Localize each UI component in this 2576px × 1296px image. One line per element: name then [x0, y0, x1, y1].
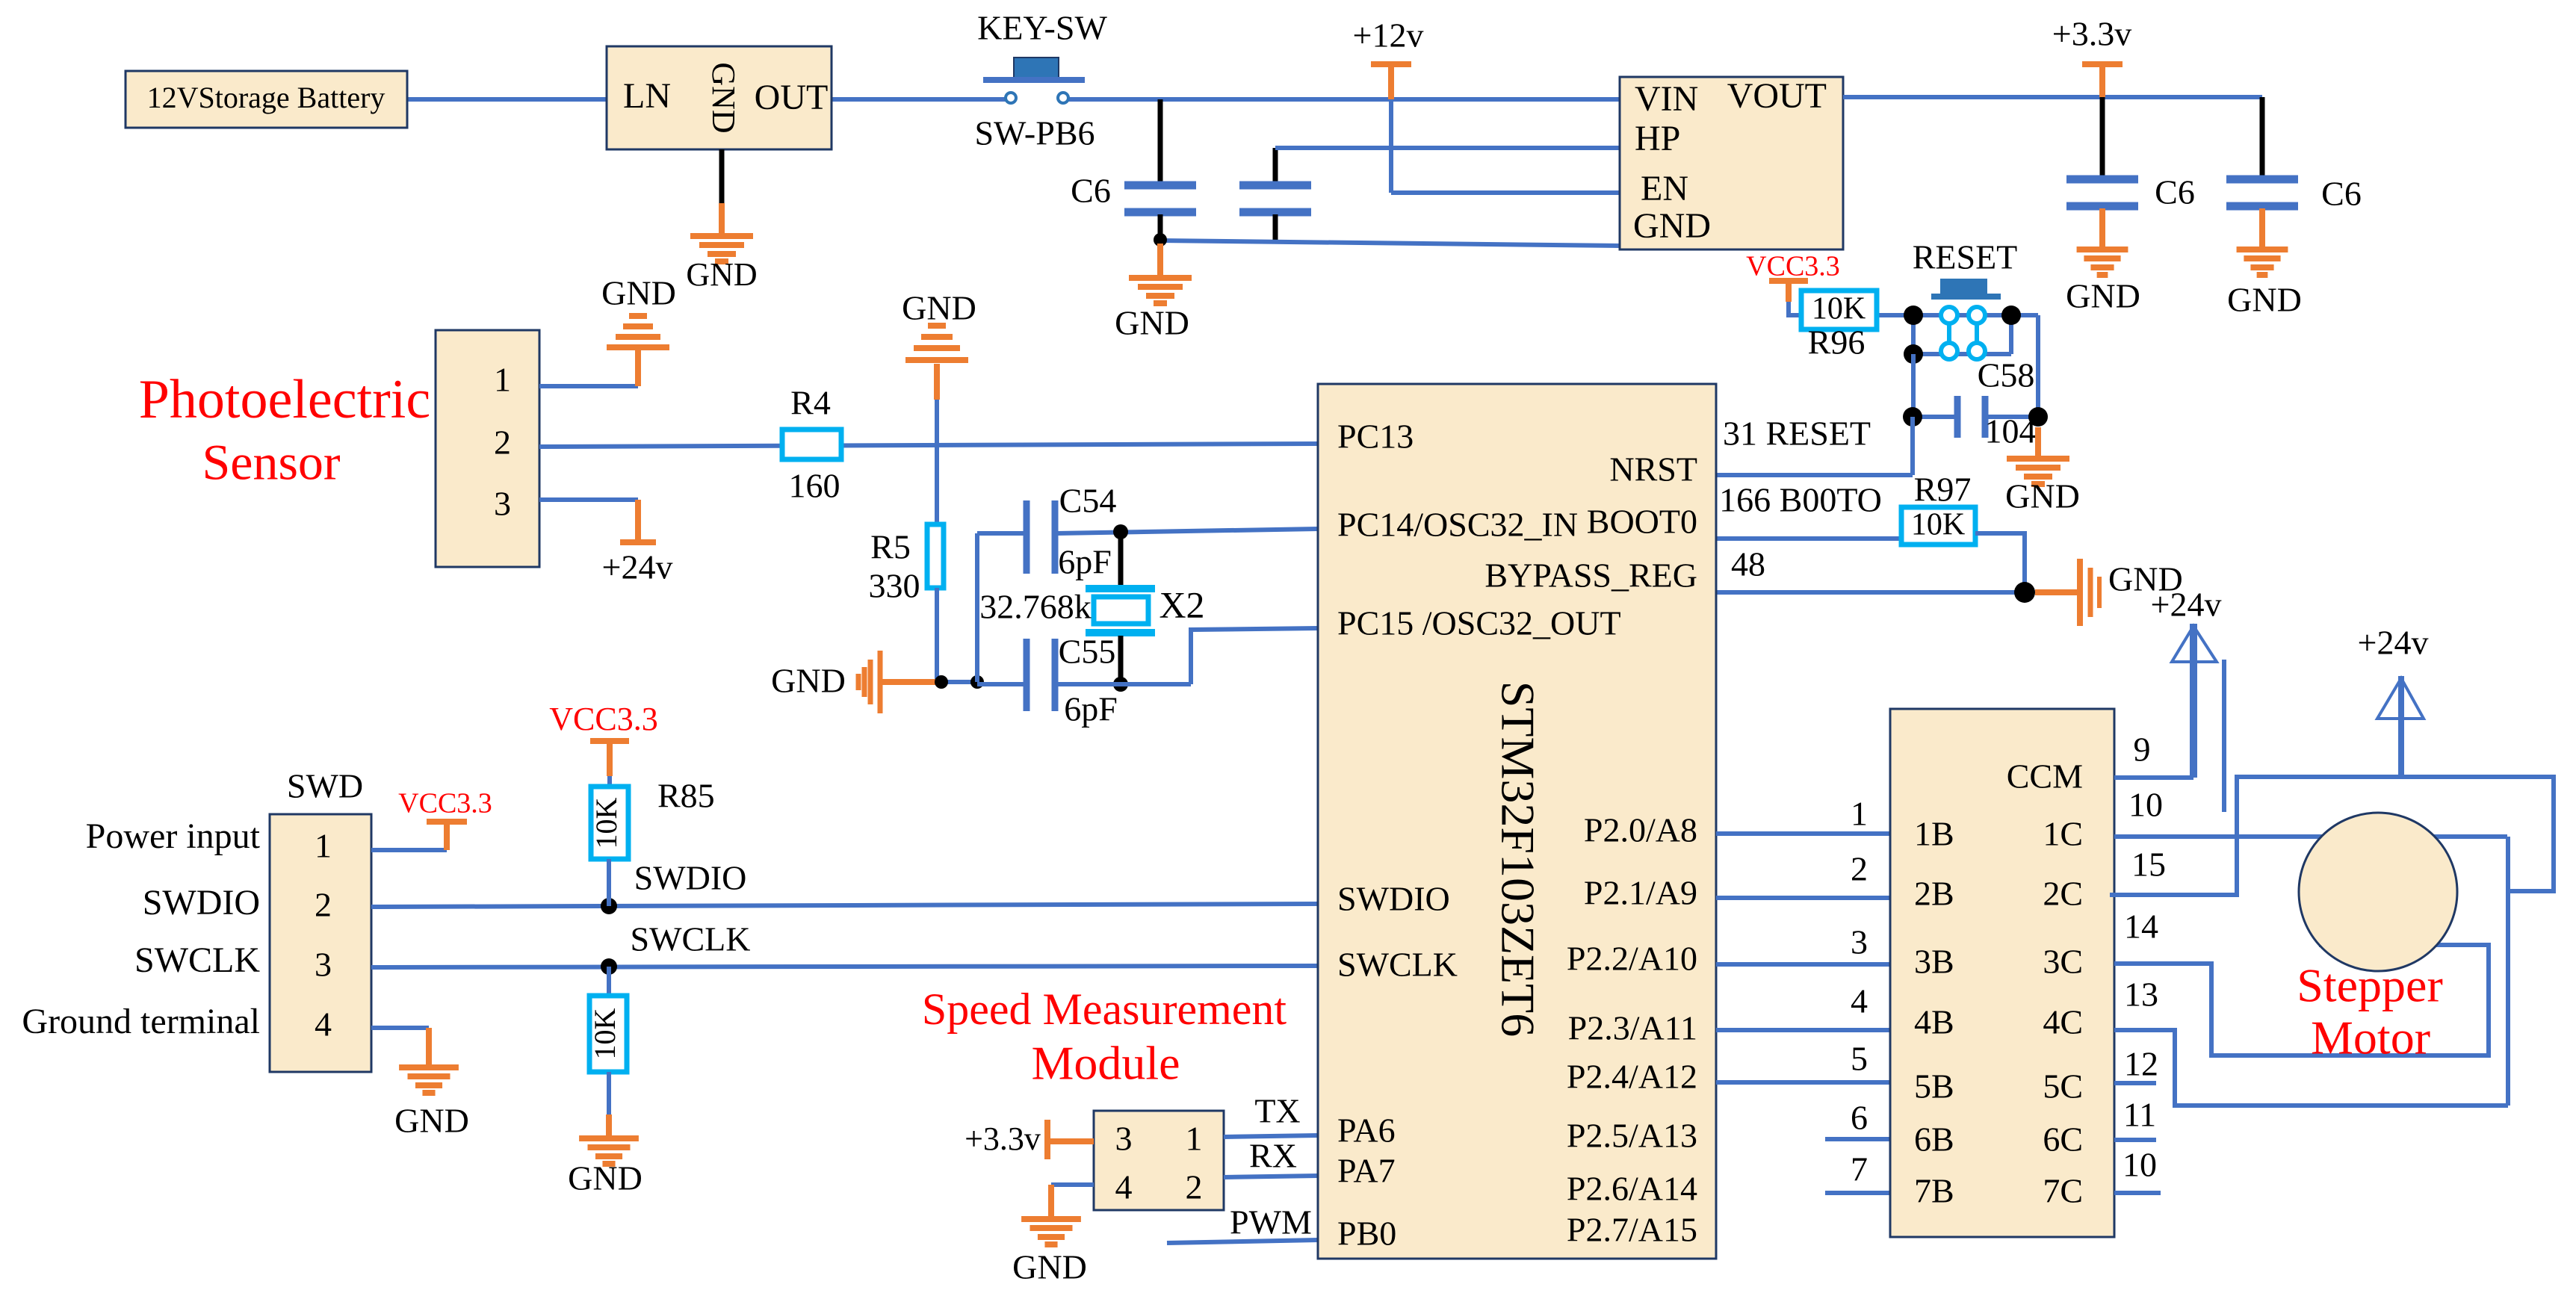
svg-text:3C: 3C — [2043, 943, 2083, 981]
svg-text:GND: GND — [771, 662, 846, 700]
svg-text:NRST: NRST — [1609, 450, 1697, 489]
svg-text:SWCLK: SWCLK — [631, 920, 751, 958]
svg-text:2: 2 — [1186, 1168, 1203, 1206]
svg-text:6B: 6B — [1914, 1120, 1954, 1159]
svg-text:GND: GND — [705, 62, 742, 133]
svg-text:6C: 6C — [2043, 1120, 2083, 1159]
svg-text:VCC3.3: VCC3.3 — [398, 788, 492, 819]
svg-text:HP: HP — [1635, 119, 1680, 158]
svg-text:4: 4 — [315, 1005, 332, 1044]
svg-text:SWCLK: SWCLK — [1337, 946, 1458, 984]
svg-text:4C: 4C — [2043, 1003, 2083, 1041]
svg-text:2: 2 — [494, 424, 511, 462]
svg-text:RX: RX — [1249, 1137, 1297, 1175]
svg-text:6pF: 6pF — [1064, 690, 1118, 728]
svg-text:PC14/OSC32_IN: PC14/OSC32_IN — [1337, 506, 1578, 544]
svg-text:10K: 10K — [588, 1008, 622, 1059]
svg-text:VCC3.3: VCC3.3 — [1746, 251, 1840, 282]
svg-text:1C: 1C — [2043, 815, 2083, 853]
svg-text:32.768k: 32.768k — [979, 588, 1092, 626]
svg-text:R97: R97 — [1914, 471, 1972, 509]
svg-text:+24v: +24v — [2358, 624, 2429, 662]
svg-text:2: 2 — [1851, 850, 1868, 888]
svg-text:SWDIO: SWDIO — [1337, 880, 1450, 918]
svg-text:P2.2/A10: P2.2/A10 — [1567, 940, 1697, 978]
svg-text:1: 1 — [494, 361, 511, 399]
svg-text:5: 5 — [1851, 1040, 1868, 1078]
svg-text:4: 4 — [1851, 982, 1868, 1020]
svg-text:P2.4/A12: P2.4/A12 — [1567, 1058, 1697, 1096]
svg-text:3: 3 — [494, 485, 511, 523]
svg-text:STM32F103ZET6: STM32F103ZET6 — [1491, 681, 1544, 1037]
svg-text:+3.3v: +3.3v — [965, 1120, 1041, 1157]
svg-text:C6: C6 — [1071, 172, 1111, 210]
svg-text:GND: GND — [1012, 1248, 1087, 1286]
svg-text:1B: 1B — [1914, 815, 1954, 853]
svg-text:SWDIO: SWDIO — [143, 883, 260, 923]
svg-text:Motor: Motor — [2311, 1011, 2430, 1064]
svg-text:10K: 10K — [1812, 292, 1866, 326]
svg-text:CCM: CCM — [2007, 757, 2083, 796]
svg-text:31 RESET: 31 RESET — [1723, 415, 1871, 453]
svg-text:C55: C55 — [1059, 633, 1116, 671]
svg-text:P2.3/A11: P2.3/A11 — [1568, 1009, 1697, 1047]
svg-text:P2.7/A15: P2.7/A15 — [1567, 1211, 1697, 1249]
svg-text:+24v: +24v — [602, 548, 673, 586]
svg-text:1: 1 — [315, 827, 332, 865]
svg-text:VOUT: VOUT — [1727, 76, 1827, 116]
svg-text:330: 330 — [869, 567, 920, 605]
svg-text:3: 3 — [315, 946, 332, 984]
svg-text:13: 13 — [2124, 976, 2158, 1014]
svg-text:SW-PB6: SW-PB6 — [974, 114, 1095, 152]
svg-text:LN: LN — [623, 76, 671, 116]
svg-text:6pF: 6pF — [1058, 543, 1112, 581]
svg-text:6: 6 — [1851, 1099, 1868, 1137]
svg-text:3: 3 — [1115, 1120, 1133, 1158]
svg-text:GND: GND — [568, 1159, 643, 1197]
svg-text:R4: R4 — [790, 384, 831, 422]
svg-text:TX: TX — [1254, 1092, 1300, 1130]
svg-text:12: 12 — [2124, 1045, 2158, 1083]
svg-text:P2.5/A13: P2.5/A13 — [1567, 1117, 1697, 1155]
svg-text:R5: R5 — [870, 528, 911, 566]
svg-text:+12v: +12v — [1353, 16, 1424, 55]
svg-text:Module: Module — [1031, 1037, 1180, 1090]
svg-text:Photoelectric: Photoelectric — [139, 369, 430, 430]
svg-text:160: 160 — [789, 467, 840, 505]
svg-text:SWDIO: SWDIO — [634, 859, 747, 897]
svg-text:4: 4 — [1115, 1168, 1133, 1206]
svg-text:15: 15 — [2131, 846, 2166, 884]
svg-text:9: 9 — [2134, 731, 2151, 769]
svg-text:KEY-SW: KEY-SW — [977, 9, 1107, 47]
svg-text:GND: GND — [394, 1102, 469, 1140]
svg-text:48: 48 — [1731, 545, 1765, 583]
svg-text:SWCLK: SWCLK — [134, 940, 260, 980]
svg-text:11: 11 — [2123, 1096, 2156, 1134]
svg-text:2C: 2C — [2043, 875, 2083, 913]
svg-text:2B: 2B — [1914, 875, 1954, 913]
svg-text:PA6: PA6 — [1337, 1111, 1396, 1150]
svg-text:10K: 10K — [1911, 508, 1965, 542]
svg-text:C58: C58 — [1978, 356, 2035, 394]
svg-text:GND: GND — [601, 274, 676, 312]
svg-text:4B: 4B — [1914, 1003, 1954, 1041]
svg-text:GND: GND — [902, 289, 976, 327]
svg-text:R85: R85 — [657, 777, 715, 815]
svg-text:Ground terminal: Ground terminal — [22, 1002, 260, 1041]
svg-text:PC13: PC13 — [1337, 418, 1414, 456]
svg-text:10: 10 — [2128, 786, 2163, 824]
svg-text:1: 1 — [1186, 1120, 1203, 1158]
svg-text:C6: C6 — [2155, 173, 2195, 211]
svg-text:10: 10 — [2123, 1146, 2157, 1184]
svg-text:104: 104 — [1985, 412, 2037, 450]
svg-text:SWD: SWD — [287, 767, 363, 805]
svg-text:C6: C6 — [2321, 175, 2362, 213]
svg-text:P2.0/A8: P2.0/A8 — [1584, 811, 1697, 849]
svg-text:+24v: +24v — [2151, 586, 2222, 624]
svg-text:BOOT0: BOOT0 — [1587, 503, 1697, 541]
svg-text:GND: GND — [2227, 281, 2302, 319]
svg-text:GND: GND — [686, 256, 757, 293]
svg-text:Power input: Power input — [86, 816, 261, 856]
svg-text:GND: GND — [1633, 206, 1711, 246]
svg-text:RESET: RESET — [1913, 238, 2018, 276]
svg-text:12VStorage Battery: 12VStorage Battery — [147, 81, 386, 114]
svg-text:R96: R96 — [1808, 323, 1866, 362]
svg-text:PC15 /OSC32_OUT: PC15 /OSC32_OUT — [1337, 604, 1621, 642]
svg-text:Stepper: Stepper — [2297, 959, 2443, 1012]
svg-text:VIN: VIN — [1635, 79, 1698, 119]
svg-text:10K: 10K — [589, 797, 623, 849]
svg-text:7C: 7C — [2043, 1172, 2083, 1210]
svg-text:X2: X2 — [1159, 583, 1204, 625]
svg-text:7B: 7B — [1914, 1172, 1954, 1210]
svg-text:BYPASS_REG: BYPASS_REG — [1484, 556, 1697, 595]
svg-text:3B: 3B — [1914, 943, 1954, 981]
svg-text:7: 7 — [1851, 1150, 1868, 1188]
svg-text:PB0: PB0 — [1337, 1215, 1396, 1253]
svg-text:Sensor: Sensor — [202, 434, 340, 491]
svg-text:2: 2 — [315, 886, 332, 924]
svg-text:3: 3 — [1851, 923, 1868, 961]
svg-text:14: 14 — [2124, 908, 2158, 946]
svg-text:EN: EN — [1641, 169, 1688, 208]
svg-text:P2.6/A14: P2.6/A14 — [1567, 1170, 1697, 1208]
svg-text:GND: GND — [1115, 304, 1189, 342]
svg-text:P2.1/A9: P2.1/A9 — [1584, 874, 1697, 912]
svg-text:PA7: PA7 — [1337, 1152, 1396, 1190]
svg-text:VCC3.3: VCC3.3 — [549, 701, 657, 737]
svg-text:5C: 5C — [2043, 1067, 2083, 1106]
svg-text:5B: 5B — [1914, 1067, 1954, 1106]
svg-text:C54: C54 — [1059, 482, 1117, 520]
svg-text:GND: GND — [2005, 477, 2080, 515]
svg-text:1: 1 — [1851, 795, 1868, 833]
svg-text:PWM: PWM — [1230, 1203, 1312, 1241]
svg-text:GND: GND — [2066, 277, 2140, 315]
svg-text:+3.3v: +3.3v — [2052, 15, 2131, 53]
svg-text:OUT: OUT — [755, 78, 829, 117]
svg-text:166 B00TO: 166 B00TO — [1719, 481, 1882, 519]
svg-text:Speed Measurement: Speed Measurement — [922, 985, 1287, 1034]
